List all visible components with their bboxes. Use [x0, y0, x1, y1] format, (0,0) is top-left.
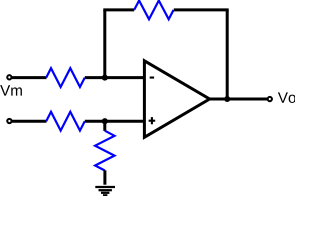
wire: feedback right vertical down to output node: [226, 10, 229, 99]
wire from op-amp output to Vo terminal: [210, 98, 268, 101]
op-amp U1 triangle: [144, 61, 209, 138]
terminal Vm (inverting input port): [7, 75, 11, 79]
label Vm: [0, 85, 22, 95]
resistor R4 (to ground): [95, 131, 114, 171]
resistor R1 (input resistor, inverting path): [46, 68, 85, 87]
ground symbol: [95, 187, 115, 195]
resistor R3 (input resistor, non-inverting path): [46, 112, 85, 131]
resistor R2 (feedback resistor): [134, 1, 173, 20]
wire: feedback top left segment: [103, 8, 134, 11]
wire from Vm terminal to R1: [12, 76, 47, 79]
wire from R1 to op-amp inverting input: [85, 76, 146, 79]
node: non-inverting input junction dot: [102, 118, 108, 124]
wire from R4 to ground: [103, 170, 106, 184]
node: output junction dot: [224, 96, 230, 102]
node: inverting input junction dot: [102, 75, 108, 81]
op-amp inverting input marker (-): [150, 77, 154, 79]
op-amp non-inverting input marker (+): [149, 117, 156, 124]
wire from R3 to op-amp non-inverting input: [85, 120, 146, 123]
wire from junction down to R4: [103, 121, 106, 131]
terminal Vo (output port): [268, 97, 272, 101]
wire: feedback left vertical: [103, 10, 106, 78]
wire: feedback top right segment: [174, 8, 229, 11]
label Vo: [278, 92, 296, 103]
terminal Vp (non-inverting input port): [7, 119, 11, 123]
wire from Vp terminal to R3: [12, 120, 47, 123]
